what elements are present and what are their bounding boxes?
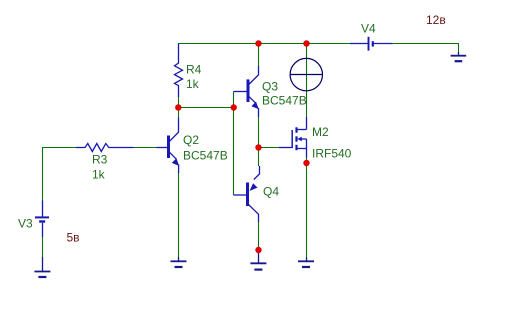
wire V3 bottom to ground (42, 237, 44, 258)
ground under Q2 (171, 257, 187, 267)
mosfet M2 (279, 117, 307, 158)
svg-text:12в: 12в (426, 13, 446, 27)
svg-text:V3: V3 (18, 217, 33, 231)
current source circle (290, 58, 323, 90)
battery V3 (35, 201, 49, 238)
svg-text:1k: 1k (186, 77, 200, 91)
wire Q3 emitter to gate node (258, 117, 260, 166)
wire top rail through current source (306, 44, 308, 118)
wire Q2 emitter down to ground (178, 172, 180, 257)
wire V3 to R3 (43, 148, 77, 201)
junction dot top rail at Q3 (255, 40, 261, 46)
junction dot Q4 collector ground (255, 247, 261, 253)
wire Q3 base column down to Q4 base (233, 92, 235, 196)
wire top rail to Q3 collector (258, 44, 260, 67)
svg-text:M2: M2 (312, 125, 329, 139)
svg-text:Q2: Q2 (183, 133, 199, 147)
transistor Q3 (234, 66, 259, 117)
junction dot top rail at source (303, 40, 309, 46)
svg-text:5в: 5в (67, 231, 80, 245)
svg-text:R3: R3 (92, 153, 108, 167)
junction dot R4 bottom (175, 104, 181, 110)
svg-text:V4: V4 (361, 22, 376, 36)
wire Q2 collector up to node (178, 108, 180, 119)
wire M2 source to ground (306, 157, 308, 258)
svg-text:BC547B: BC547B (183, 149, 228, 163)
junction dot M2 source (303, 160, 309, 166)
wire R3 to Q2 base (133, 147, 157, 149)
svg-text:BC547B: BC547B (262, 94, 307, 108)
battery V4 (350, 37, 393, 51)
wire gate node to M2 gate (259, 147, 280, 149)
svg-text:R4: R4 (186, 63, 202, 77)
ground under Q4 (250, 250, 266, 270)
svg-text:1k: 1k (92, 168, 106, 182)
transistor Q2 (157, 118, 180, 174)
wire R4 bottom to Q3 base column (178, 97, 234, 108)
ground under V3 (34, 257, 50, 277)
ground under M2 (298, 257, 314, 267)
resistor R3 (76, 144, 134, 152)
svg-text:Q3: Q3 (262, 80, 278, 94)
wire Q4 collector to ground (258, 222, 260, 250)
svg-text:IRF540: IRF540 (312, 147, 352, 161)
ground top right (451, 52, 467, 61)
svg-text:Q4: Q4 (263, 185, 279, 199)
junction dot gate node (255, 144, 261, 150)
resistor R4 (175, 44, 183, 97)
transistor Q4 (234, 166, 260, 222)
wire top rail left (178, 43, 350, 45)
wire top rail right (393, 44, 459, 53)
junction dot Q3 base (231, 104, 237, 110)
